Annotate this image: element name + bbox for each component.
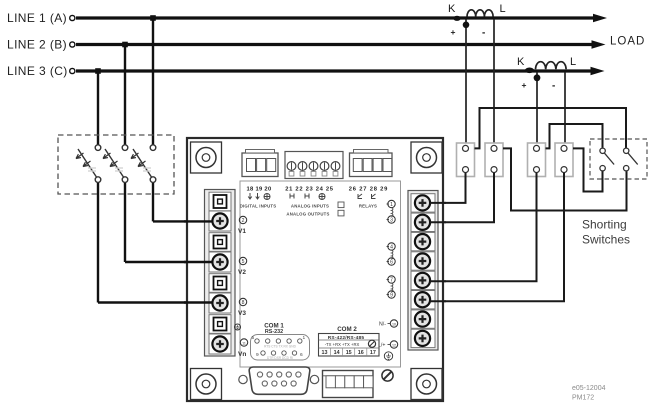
svg-text:K: K — [517, 56, 525, 68]
svg-text:16: 16 — [358, 350, 364, 356]
svg-text:17: 17 — [370, 350, 376, 356]
svg-text:5: 5 — [242, 259, 245, 265]
svg-text:12: 12 — [392, 343, 396, 347]
svg-text:L: L — [500, 3, 506, 15]
svg-text:4: 4 — [390, 244, 393, 250]
svg-text:RELAYS: RELAYS — [359, 204, 377, 209]
svg-text:6: 6 — [300, 352, 303, 358]
svg-text:1: 1 — [303, 335, 306, 341]
svg-text:18 19 20: 18 19 20 — [247, 187, 272, 193]
svg-text:DTR DSR DCD RI: DTR DSR DCD RI — [267, 356, 293, 360]
svg-text:PM172: PM172 — [572, 395, 594, 402]
svg-text:V2: V2 — [238, 269, 246, 276]
svg-text:10: 10 — [392, 322, 396, 326]
svg-text:1: 1 — [390, 202, 393, 208]
svg-text:V3: V3 — [238, 310, 246, 317]
svg-text:+: + — [522, 80, 527, 90]
svg-text:-TX +RX +TX +RX: -TX +RX +TX +RX — [325, 342, 360, 347]
svg-text:K: K — [448, 3, 456, 15]
svg-text:RS-422/RS-485: RS-422/RS-485 — [328, 335, 365, 341]
svg-text:COM 2: COM 2 — [337, 326, 357, 333]
svg-text:Shorting: Shorting — [582, 218, 627, 232]
svg-text:-: - — [552, 81, 555, 92]
svg-text:6: 6 — [390, 259, 393, 265]
svg-text:+: + — [451, 27, 456, 37]
svg-text:9: 9 — [256, 352, 259, 358]
svg-text:11: 11 — [242, 341, 246, 345]
svg-text:15: 15 — [346, 350, 352, 356]
svg-text:5: 5 — [252, 335, 255, 341]
svg-text:LOAD: LOAD — [610, 36, 645, 48]
svg-text:LINE 3 (C): LINE 3 (C) — [7, 64, 68, 78]
svg-text:e05-12004: e05-12004 — [572, 385, 606, 392]
svg-text:N/-: N/- — [379, 322, 386, 328]
svg-text:21 22 23 24 25: 21 22 23 24 25 — [285, 187, 334, 193]
svg-text:13: 13 — [322, 350, 328, 356]
svg-text:14: 14 — [334, 350, 340, 356]
svg-text:-: - — [482, 28, 485, 39]
svg-text:ANALOG OUTPUTS: ANALOG OUTPUTS — [286, 212, 329, 217]
svg-text:8: 8 — [242, 300, 245, 306]
svg-text:LINE 1 (A): LINE 1 (A) — [7, 11, 67, 25]
svg-text:9: 9 — [390, 292, 393, 298]
svg-text:V1: V1 — [238, 228, 246, 235]
svg-text:Vn: Vn — [238, 351, 246, 358]
svg-text:RTS CTS TX RX GND: RTS CTS TX RX GND — [264, 345, 296, 349]
svg-text:Switches: Switches — [582, 233, 630, 247]
svg-text:26 27 28 29: 26 27 28 29 — [349, 187, 388, 193]
svg-text:L: L — [570, 56, 576, 68]
svg-text:3: 3 — [390, 217, 393, 223]
svg-text:LINE 2 (B): LINE 2 (B) — [7, 38, 67, 52]
svg-text:ANALOG INPUTS: ANALOG INPUTS — [291, 204, 329, 209]
svg-text:DIGITAL INPUTS: DIGITAL INPUTS — [240, 204, 277, 209]
svg-text:2: 2 — [242, 218, 245, 224]
svg-text:7: 7 — [390, 277, 393, 283]
